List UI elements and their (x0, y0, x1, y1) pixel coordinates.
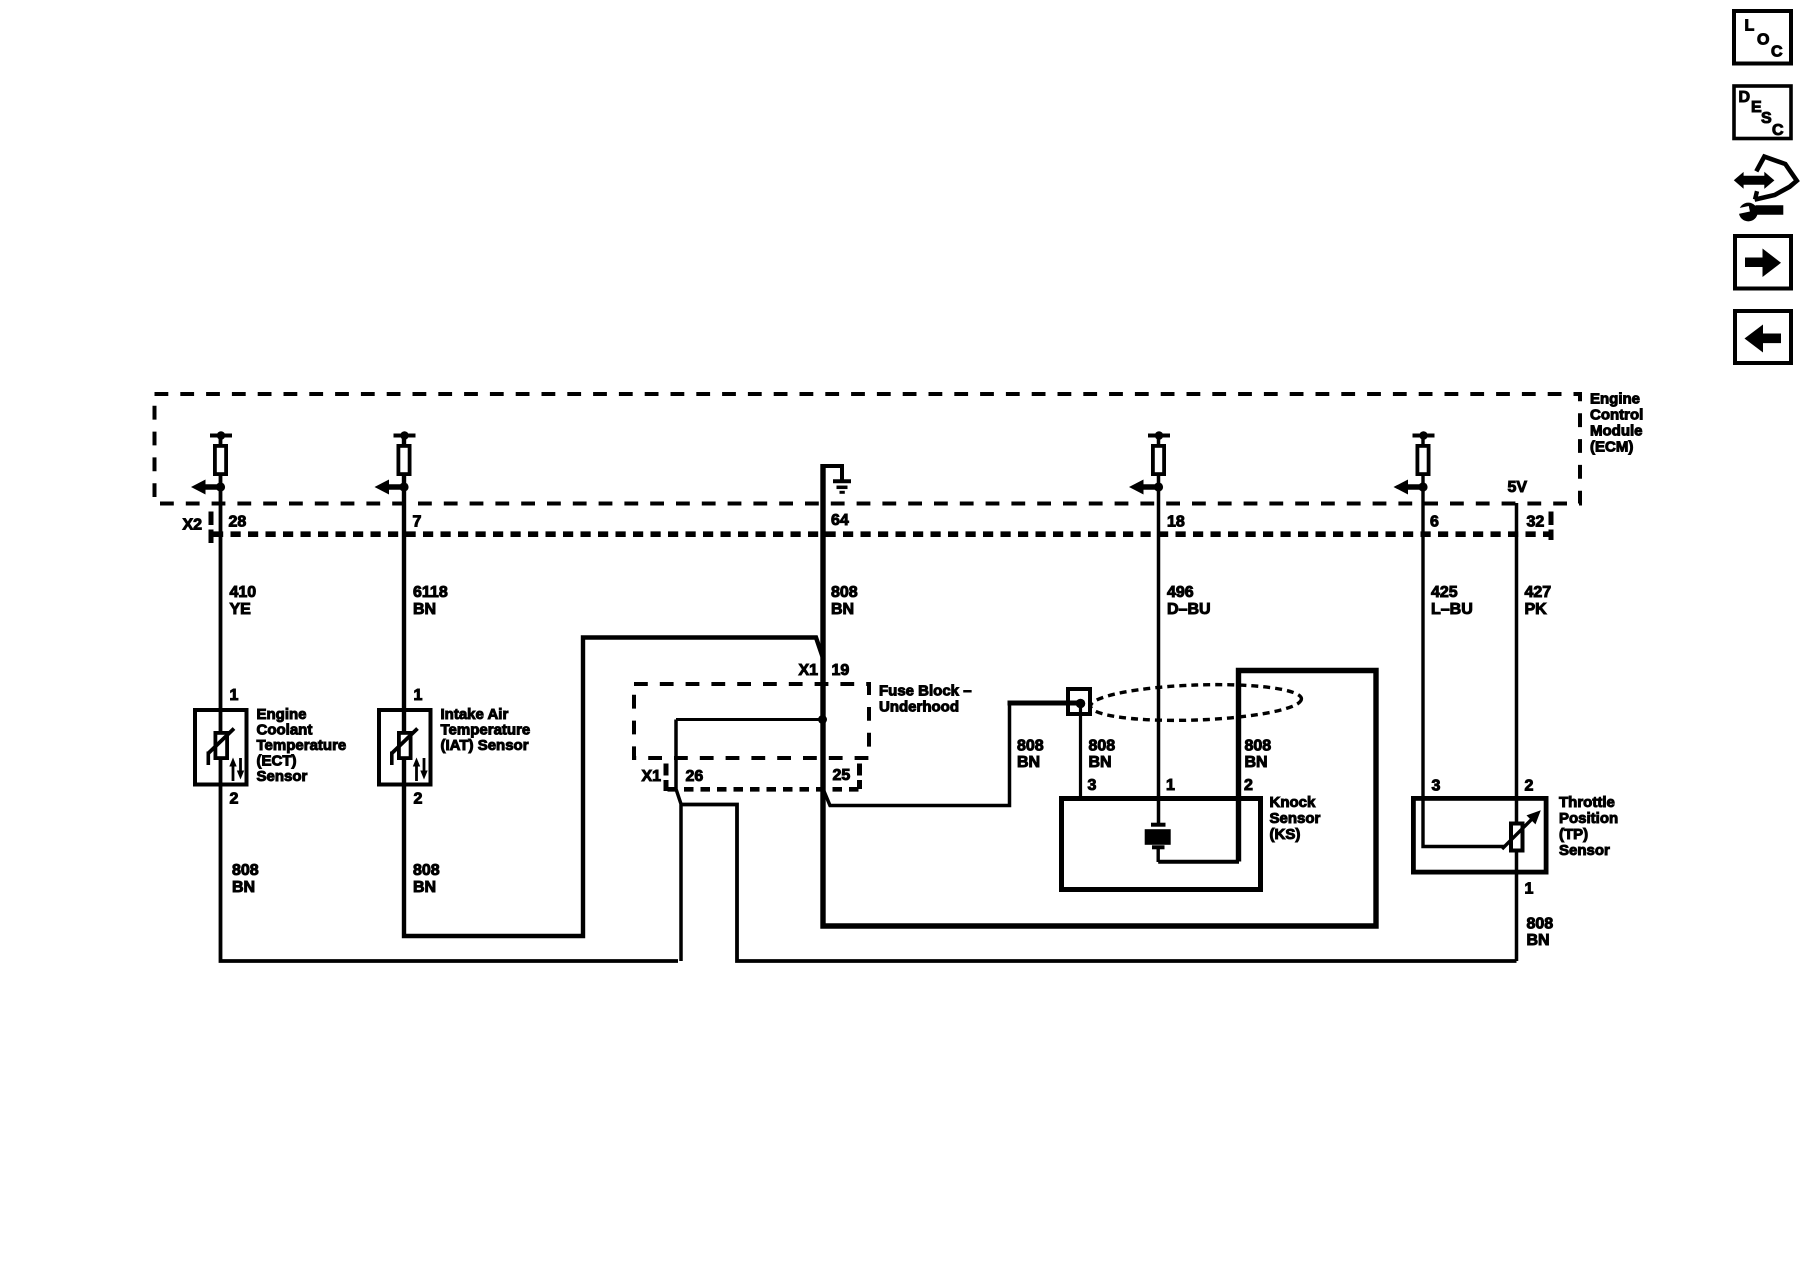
svg-text:(TP): (TP) (1559, 826, 1588, 843)
wire 808 BN label left of splice (1017, 738, 1044, 772)
svg-text:425: 425 (1431, 584, 1458, 601)
svg-text:BN: BN (1527, 932, 1550, 949)
icon back arrow box (1735, 311, 1791, 363)
IAT sensor name (441, 706, 531, 754)
svg-text:BN: BN (413, 879, 436, 896)
svg-text:3: 3 (1088, 777, 1097, 794)
svg-text:Temperature: Temperature (441, 722, 531, 739)
svg-text:5V: 5V (1508, 479, 1528, 496)
Throttle Position (TP) Sensor box (1413, 798, 1546, 872)
svg-text:808: 808 (1527, 916, 1554, 933)
svg-text:Coolant: Coolant (257, 722, 313, 739)
Fuse Block - Underhood dashed box (634, 684, 869, 758)
svg-text:X2: X2 (183, 517, 203, 534)
wire 808 BN label below TP (1527, 916, 1554, 950)
svg-text:Intake Air: Intake Air (441, 706, 509, 723)
svg-text:Temperature: Temperature (257, 737, 347, 754)
pull-up resistor at ECM pin 18 (1129, 431, 1170, 494)
svg-text:1: 1 (1525, 881, 1534, 898)
icon DESC box (1734, 86, 1791, 139)
svg-text:BN: BN (232, 879, 255, 896)
svg-text:1: 1 (230, 687, 239, 704)
wire 410 YE label (230, 584, 257, 618)
svg-text:BN: BN (831, 601, 854, 618)
svg-text:(KS): (KS) (1270, 826, 1301, 843)
fuse block X1 26 25 pin labels (642, 767, 851, 785)
Engine Coolant Temperature (ECT) Sensor box (195, 710, 247, 785)
svg-text:PK: PK (1525, 601, 1548, 618)
svg-text:(IAT) Sensor: (IAT) Sensor (441, 737, 529, 754)
svg-text:Sensor: Sensor (1559, 842, 1610, 859)
svg-text:2: 2 (1244, 777, 1253, 794)
wire 808 BN label at pin 64 (831, 584, 858, 618)
X2 connector tick mark (209, 512, 214, 544)
wire 808 BN : branch to TP sensor ground (680, 805, 1517, 962)
wire 808 BN : fuse block X1-25 to splice box (824, 703, 1010, 806)
svg-text:Module: Module (1590, 423, 1643, 440)
ground symbol at ECM pin 64 (823, 464, 851, 492)
wire 808 BN : splice feed horizontal (1008, 701, 1070, 706)
svg-text:410: 410 (230, 584, 257, 601)
fuse block X1 tick mark left (664, 764, 669, 792)
svg-text:25: 25 (833, 767, 851, 784)
ECM name label (1590, 391, 1643, 456)
wire 808 BN label below ECT (232, 862, 259, 896)
wire 808 BN : ECM pin 64 ground lead and knock sensor shield loop (823, 464, 1376, 926)
svg-text:26: 26 (686, 768, 704, 785)
svg-text:O: O (1757, 32, 1769, 49)
wire 425 L-BU label (1431, 584, 1473, 618)
svg-text:Sensor: Sensor (257, 768, 308, 785)
knock sensor piezo element (1145, 825, 1239, 862)
TP sensor potentiometer (1502, 810, 1541, 850)
IAT pin numbers (414, 687, 423, 808)
splice wire stub (1066, 701, 1079, 706)
pull-up resistor at ECM pin 7 (375, 431, 416, 494)
wire 498 D-BU label (1167, 584, 1211, 618)
icon forward arrow box (1735, 236, 1791, 289)
fuse block internal wire to X1-19 junction (676, 718, 823, 721)
KS pin numbers (1088, 777, 1254, 794)
svg-text:2: 2 (230, 791, 239, 808)
svg-text:YE: YE (230, 601, 252, 618)
ECM X2 connector dotted line (213, 531, 1551, 537)
svg-text:7: 7 (413, 514, 422, 531)
ECT thermistor element (208, 729, 244, 782)
KS sensor name (1270, 794, 1321, 843)
svg-text:2: 2 (414, 791, 423, 808)
svg-text:Control: Control (1590, 407, 1643, 424)
TP pin numbers (1432, 778, 1534, 898)
svg-text:S: S (1761, 110, 1772, 127)
splice junction dot (1076, 699, 1086, 709)
wire 427 PK : ECM pin 32 (5V) through TP sensor to ground run (1515, 503, 1519, 961)
pull-up resistor at ECM pin 6 (1394, 431, 1435, 494)
svg-text:808: 808 (1089, 738, 1116, 755)
svg-text:Fuse Block –: Fuse Block – (879, 683, 972, 700)
pin 32 connector tick mark (1549, 512, 1554, 541)
svg-text:L: L (1745, 18, 1755, 35)
fuse block name label (879, 683, 972, 716)
svg-text:Position: Position (1559, 810, 1618, 827)
wire 6118 BN label (413, 584, 448, 618)
svg-text:808: 808 (413, 862, 440, 879)
junction dot at fuse block X1-19 (818, 715, 827, 724)
svg-text:808: 808 (831, 584, 858, 601)
svg-text:1: 1 (1166, 777, 1175, 794)
svg-text:32: 32 (1527, 514, 1545, 531)
fuse block X1 tick mark right (857, 764, 862, 790)
5V supply label (1508, 479, 1528, 496)
svg-text:C: C (1772, 122, 1784, 139)
Intake Air Temperature (IAT) Sensor box (379, 710, 431, 785)
svg-text:64: 64 (831, 512, 849, 529)
svg-text:808: 808 (1017, 738, 1044, 755)
svg-text:6: 6 (1430, 514, 1439, 531)
svg-text:28: 28 (229, 514, 247, 531)
svg-text:(ECM): (ECM) (1590, 439, 1633, 456)
svg-text:496: 496 (1167, 584, 1194, 601)
wire 410 YE : ECM pin 28 through ECT sensor to 808 BN run (221, 436, 679, 962)
wire 808 BN label below IAT (413, 862, 440, 896)
svg-text:C: C (1771, 44, 1783, 61)
svg-text:19: 19 (832, 662, 850, 679)
svg-text:D–BU: D–BU (1167, 601, 1211, 618)
svg-text:Knock: Knock (1270, 794, 1317, 811)
IAT thermistor element (392, 729, 428, 782)
ECT sensor name (257, 706, 347, 785)
fuse block X1-19 pin labels (799, 662, 850, 679)
svg-text:BN: BN (413, 601, 436, 618)
svg-text:1: 1 (414, 687, 423, 704)
svg-text:X1: X1 (799, 662, 819, 679)
svg-text:18: 18 (1167, 514, 1185, 531)
Engine Control Module (ECM) dashed box (155, 394, 1581, 504)
svg-text:BN: BN (1017, 754, 1040, 771)
svg-text:6118: 6118 (413, 584, 448, 601)
svg-text:3: 3 (1432, 778, 1441, 795)
icon LOC box (1734, 11, 1791, 64)
TP sensor name (1559, 794, 1618, 859)
svg-text:Sensor: Sensor (1270, 810, 1321, 827)
pull-up resistor at ECM pin 28 (191, 431, 232, 494)
wire 808 BN label at KS pin 2 (1245, 738, 1272, 772)
splice box on 808 BN (1068, 689, 1090, 714)
svg-text:X1: X1 (642, 768, 662, 785)
svg-text:BN: BN (1089, 754, 1112, 771)
Knock Sensor (KS) box (1062, 799, 1261, 890)
svg-text:Engine: Engine (257, 706, 307, 723)
svg-text:(ECT): (ECT) (257, 753, 297, 770)
wire 6118 BN : ECM pin 7 through IAT sensor, loop to fuse block X1-19 junction (404, 436, 824, 937)
icon schematic navigation: double arrow, jump arrow outline, wrench (1734, 157, 1797, 222)
svg-text:808: 808 (232, 862, 259, 879)
wire 808 BN : fuse block X1-26 down (676, 720, 681, 962)
svg-text:BN: BN (1245, 754, 1268, 771)
ECT pin numbers (230, 687, 239, 808)
svg-text:808: 808 (1245, 738, 1272, 755)
connector X2 and pin number labels (183, 512, 1545, 534)
wire 808 BN : splice to knock sensor pin 3 (1079, 705, 1082, 798)
wire 427 PK label (1525, 584, 1552, 618)
svg-text:Underhood: Underhood (879, 699, 959, 716)
svg-text:Throttle: Throttle (1559, 794, 1615, 811)
svg-text:L–BU: L–BU (1431, 601, 1473, 618)
wire 425 L-BU : ECM pin 6 to TP sensor pin 3 (1423, 436, 1505, 847)
fuse block X1 connector dotted line (668, 787, 859, 792)
wire 498 D-BU : ECM pin 18 to knock sensor pin 1 (1157, 436, 1161, 825)
svg-text:D: D (1739, 89, 1751, 106)
svg-text:427: 427 (1525, 584, 1552, 601)
wire 808 BN label at KS pin 3 (1089, 738, 1116, 772)
shield ellipse around knock sensor wires (1090, 681, 1302, 723)
svg-text:2: 2 (1525, 778, 1534, 795)
svg-text:Engine: Engine (1590, 391, 1640, 408)
